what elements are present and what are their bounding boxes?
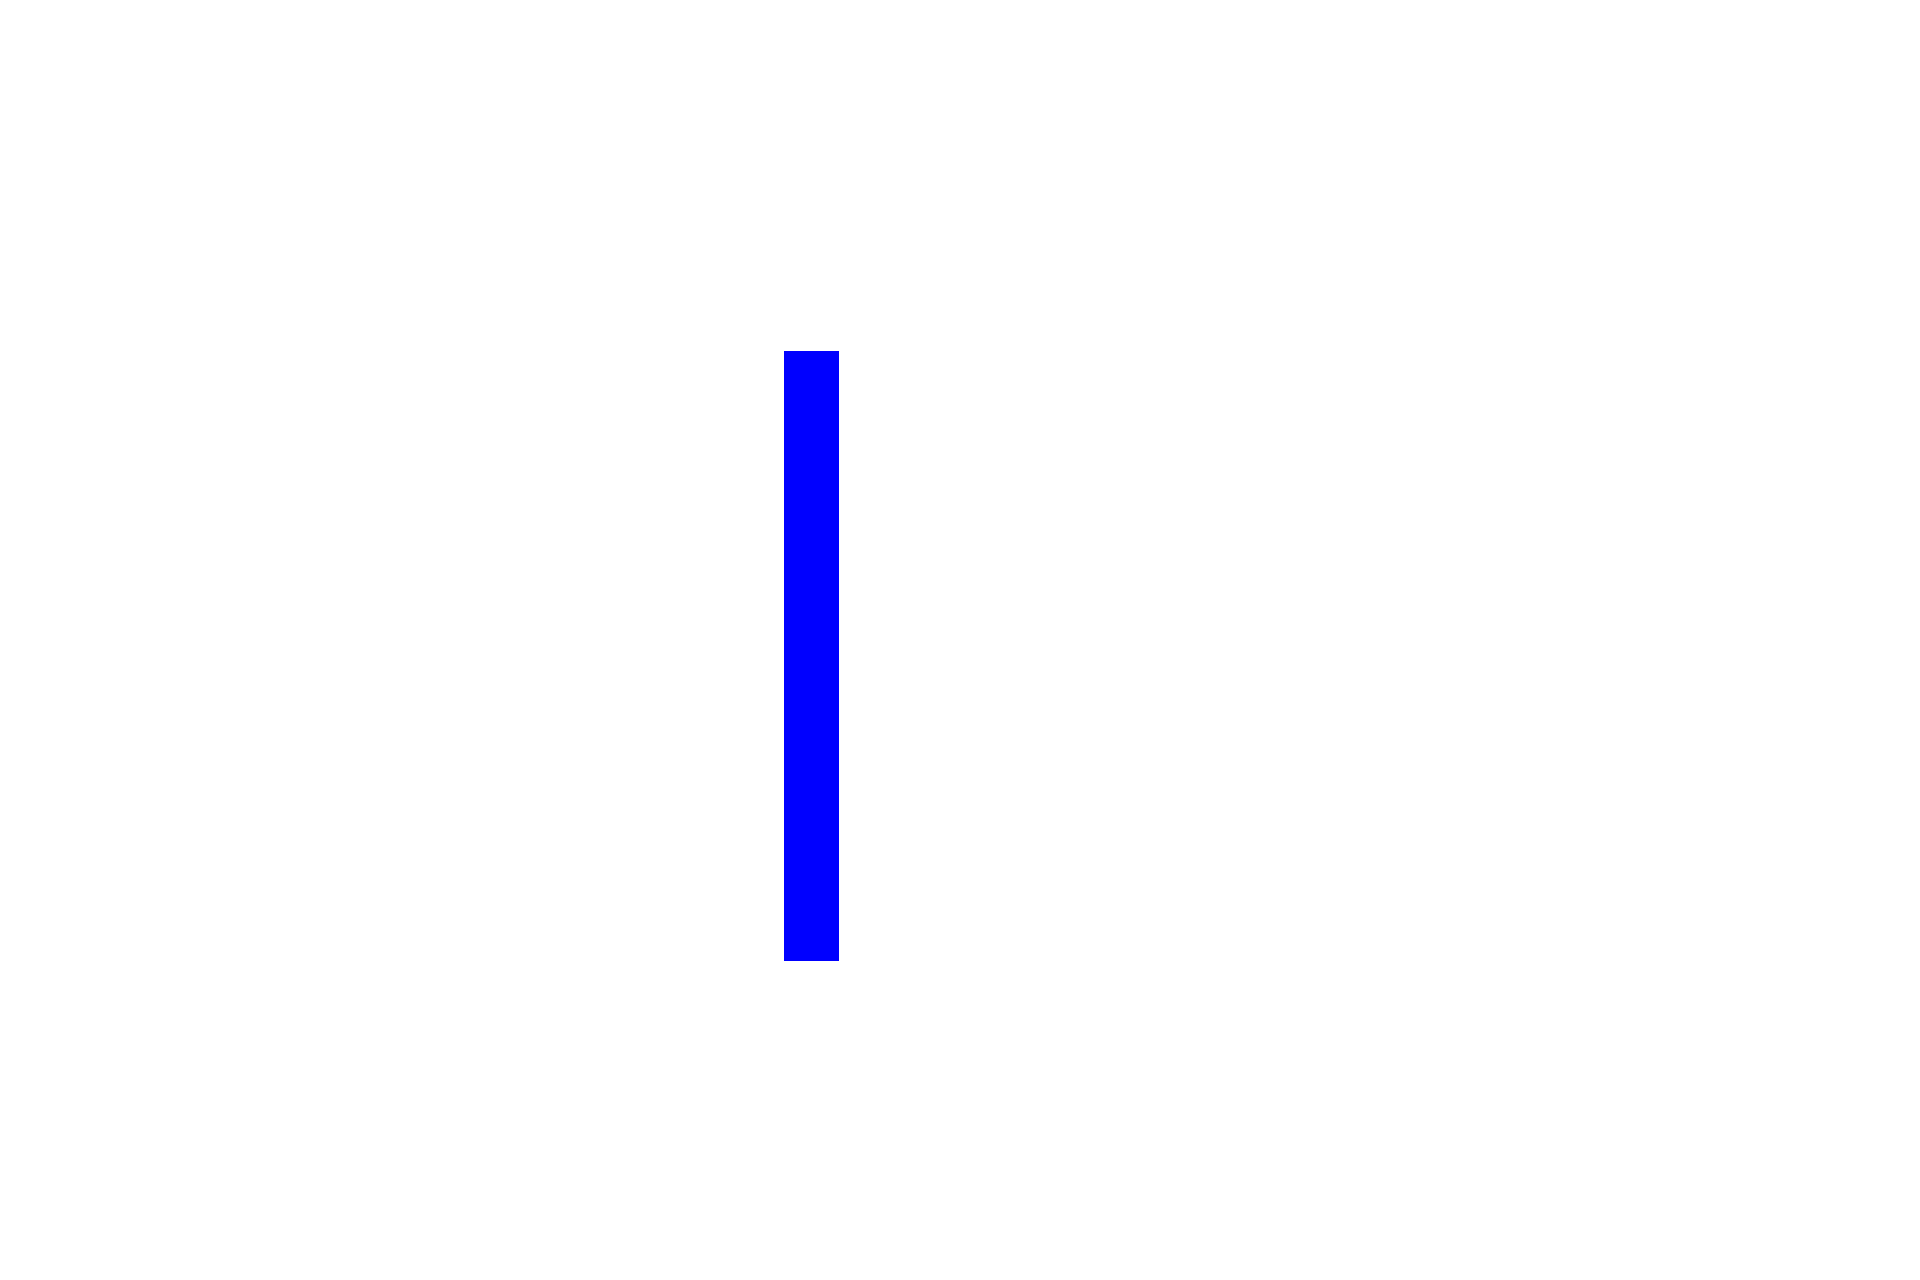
blue bar [784,351,839,961]
